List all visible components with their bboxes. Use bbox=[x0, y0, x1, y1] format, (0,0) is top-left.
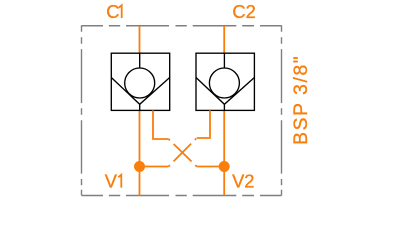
valve body dashed enclosure bottom bbox=[82, 195, 282, 197]
svg-text:C: C bbox=[106, 1, 119, 22]
check valve CV2 inlet stem bbox=[223, 53, 225, 68]
check valve CV1 ball bbox=[125, 68, 155, 98]
pilot line from CV2 bbox=[197, 110, 210, 138]
valve body dashed enclosure right bbox=[281, 25, 283, 195]
check valve CV1 seat bbox=[111, 78, 169, 105]
crossing pilot line CV1 to V2 bbox=[169, 139, 197, 167]
check valve CV2 outlet stem bbox=[223, 104, 225, 110]
svg-text:V: V bbox=[105, 171, 118, 192]
svg-text:C2: C2 bbox=[232, 1, 255, 22]
pilot branch to V1 node bbox=[140, 166, 169, 168]
wire V2 line bbox=[223, 110, 225, 195]
check valve CV2 body bbox=[196, 53, 254, 110]
wire V1 line bbox=[139, 110, 141, 195]
junction node V2 bbox=[219, 161, 230, 172]
svg-text:V2: V2 bbox=[232, 171, 254, 192]
valve body dashed enclosure top bbox=[82, 25, 282, 27]
check valve CV1 body bbox=[111, 53, 169, 110]
check valve CV1 inlet stem bbox=[139, 53, 141, 68]
wire C2 line bbox=[223, 26, 225, 53]
wire C1 line bbox=[139, 26, 141, 53]
check valve CV2 seat bbox=[196, 78, 254, 105]
pilot branch to V2 node bbox=[197, 166, 225, 168]
valve body dashed enclosure left bbox=[81, 25, 83, 195]
check valve CV1 outlet stem bbox=[139, 104, 141, 110]
svg-text:BSP 3/8": BSP 3/8" bbox=[291, 55, 312, 145]
check valve CV2 ball bbox=[209, 68, 239, 98]
junction node V1 bbox=[134, 161, 145, 172]
pilot line from CV1 bbox=[153, 110, 169, 139]
crossing pilot line CV2 to V1 bbox=[169, 138, 197, 167]
